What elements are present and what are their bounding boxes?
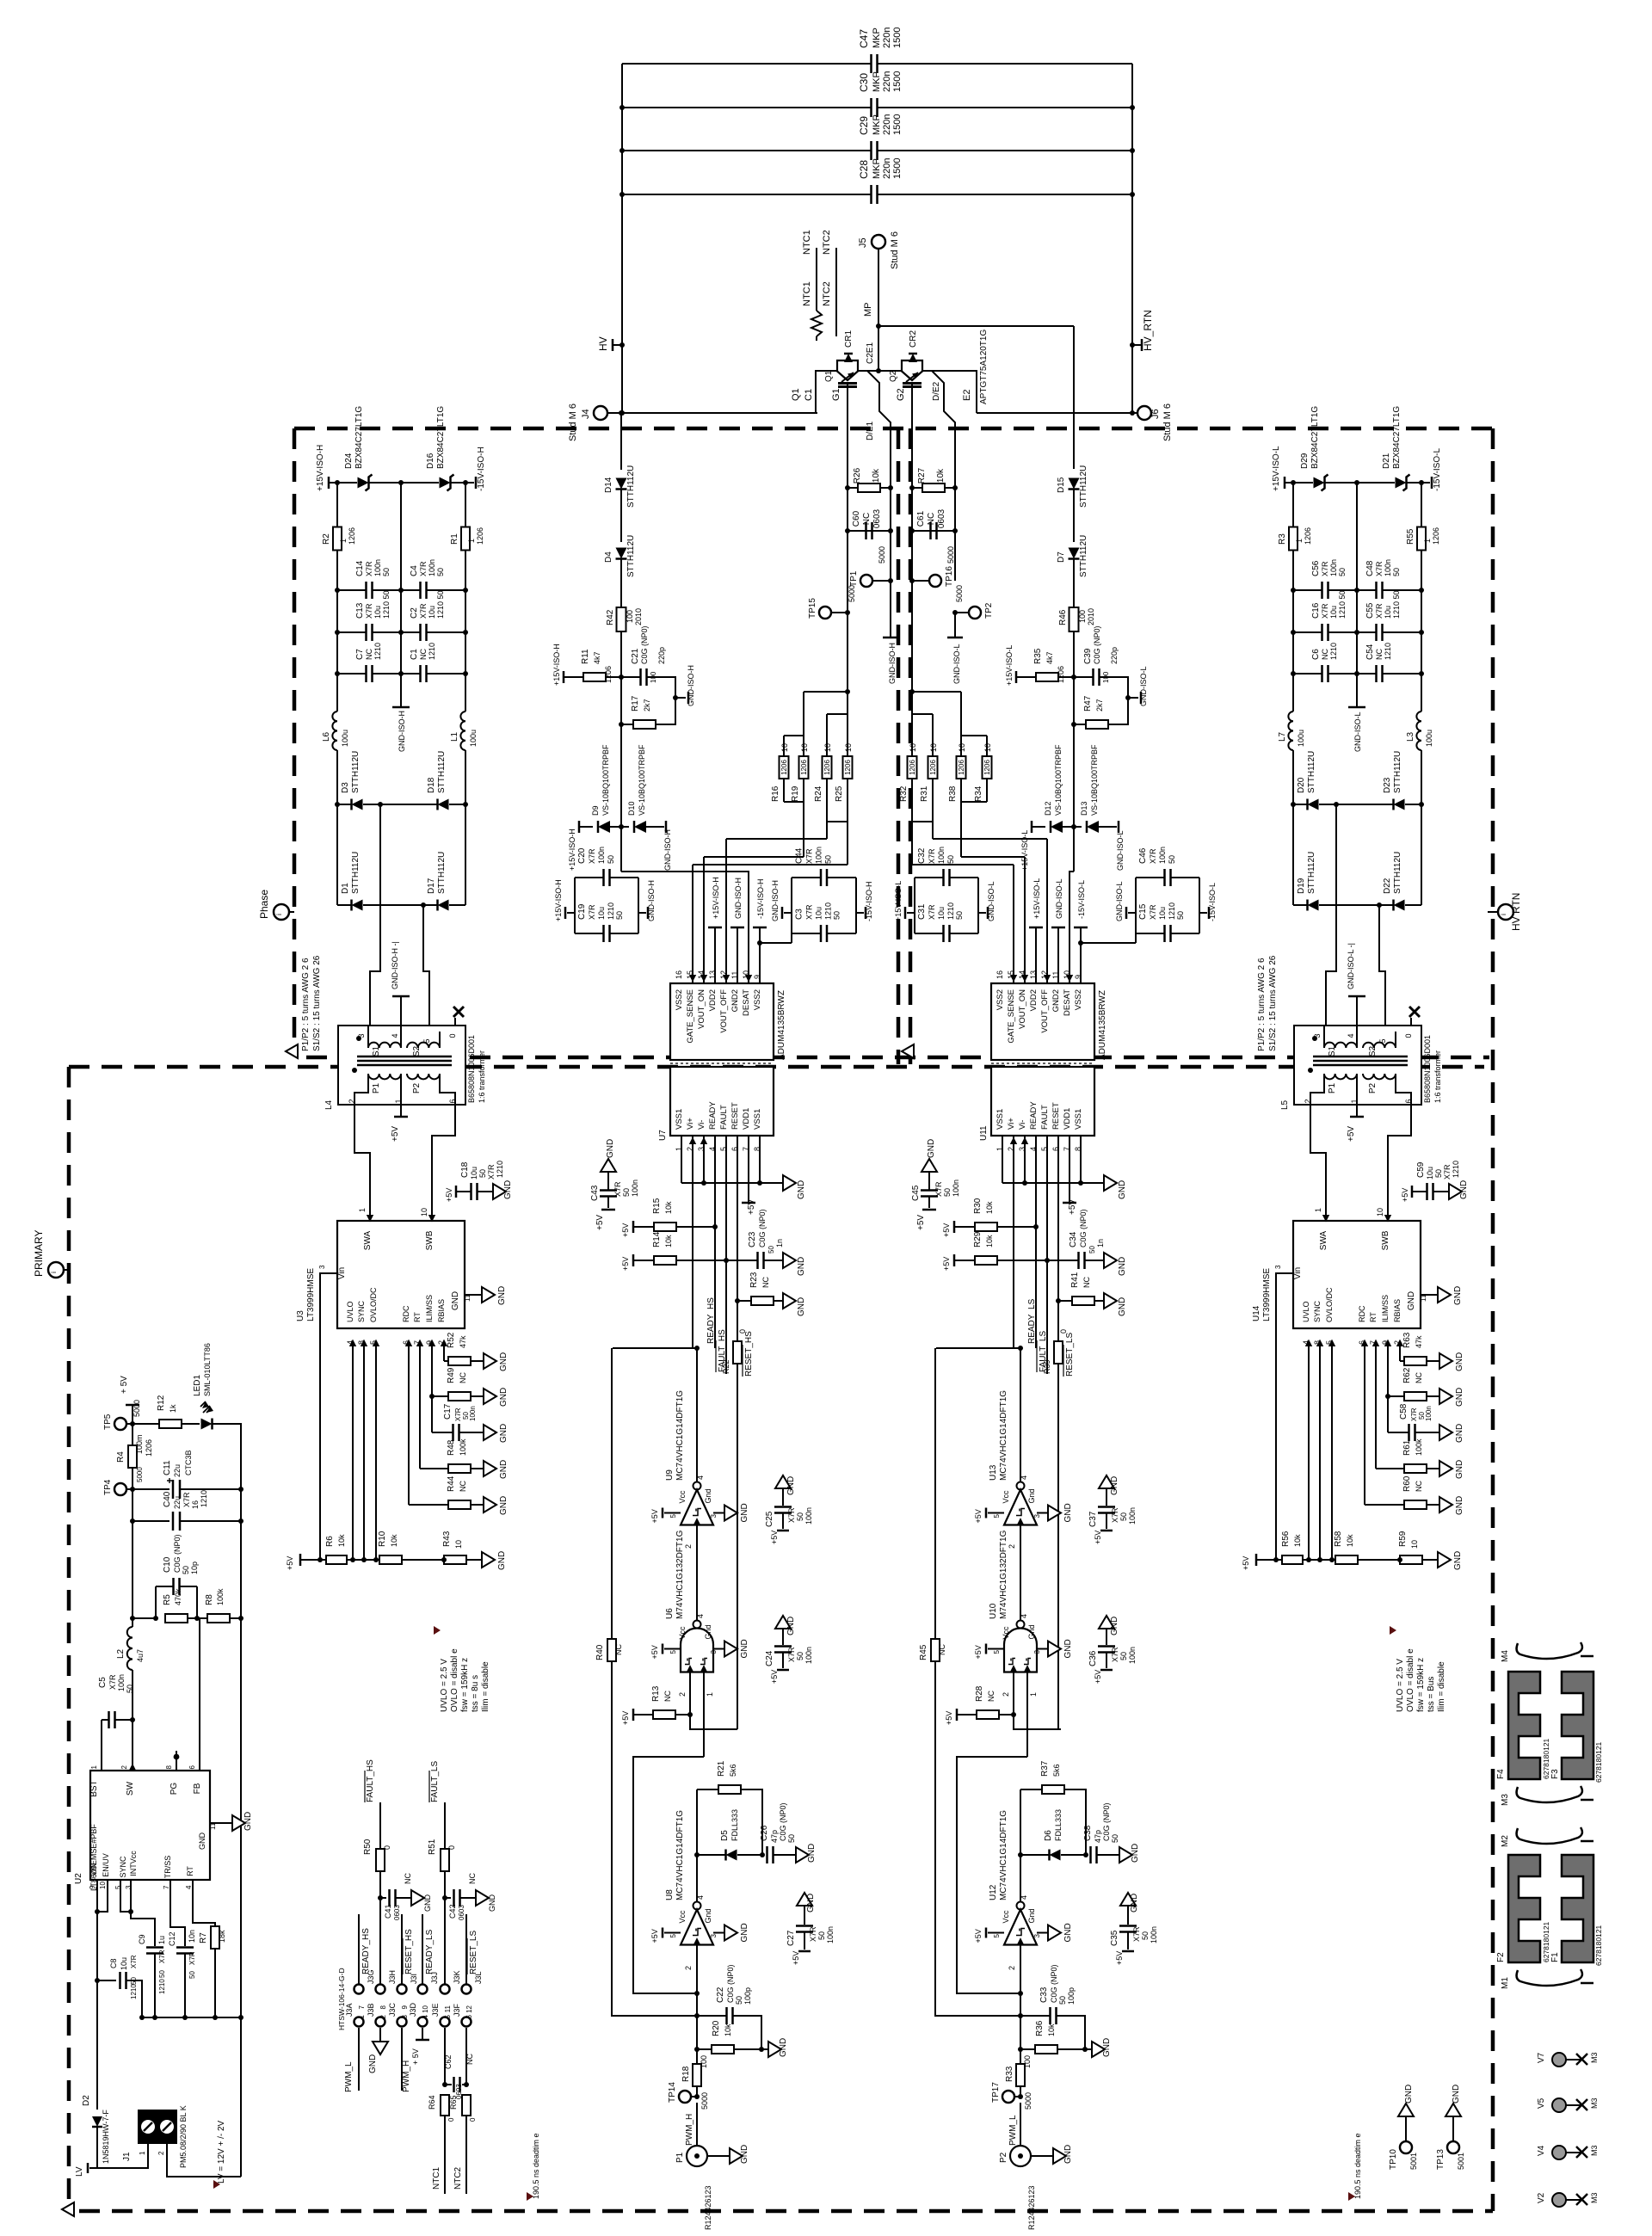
diode D2 (1N5819) [92, 2116, 102, 2127]
svg-text:C46: C46 [1138, 847, 1148, 864]
svg-text:C55: C55 [1365, 602, 1375, 619]
thermistor NTC1 NTC2 [816, 248, 817, 311]
resistor R31 [928, 756, 938, 779]
svg-text:100k: 100k [459, 1438, 467, 1456]
svg-text:NC: NC [1415, 1372, 1423, 1383]
testpoint TP14 [679, 2091, 691, 2103]
wire FB net down [240, 1521, 242, 1618]
svg-text:C26: C26 [760, 1825, 769, 1841]
note deadtime high [527, 2192, 533, 2201]
connector pin J3E [441, 2017, 450, 2027]
svg-text:1: 1 [90, 1765, 98, 1769]
wire secondary to diodes [1326, 804, 1336, 1026]
wire Q2 emitter E2 [922, 371, 977, 413]
resistor R52 [444, 1360, 448, 1362]
svg-text:10: 10 [800, 743, 809, 752]
svg-text:FAULT: FAULT [1040, 1105, 1050, 1130]
svg-text:C9: C9 [138, 1934, 146, 1944]
wire gate cluster pair rails [847, 613, 848, 714]
svg-text:1k: 1k [169, 1404, 177, 1413]
svg-text:R63: R63 [1402, 1332, 1412, 1348]
resistor R11 [583, 673, 606, 681]
capacitor C59 [1411, 1186, 1414, 1198]
svg-text:1210 50: 1210 50 [1392, 590, 1401, 619]
svg-text:MC74VHC1G14DFT1G: MC74VHC1G14DFT1G [999, 1810, 1008, 1900]
svg-text:C32: C32 [917, 847, 927, 864]
svg-text:GND-ISO-H: GND-ISO-H [734, 878, 743, 919]
svg-text:10u: 10u [1329, 606, 1338, 619]
svg-text:50: 50 [188, 1971, 196, 1979]
capacitor C40 (22u) [130, 1518, 135, 1524]
svg-text:+15V-ISO-H: +15V-ISO-H [316, 445, 325, 491]
svg-text:50: 50 [622, 1188, 631, 1197]
resistor R30 [953, 1221, 956, 1233]
svg-text:10k: 10k [985, 1235, 994, 1247]
resistor R13 [632, 1709, 635, 1721]
svg-text:C0G (NP0): C0G (NP0) [1050, 1964, 1058, 2003]
svg-text:+15V-ISO-L: +15V-ISO-L [894, 881, 903, 921]
svg-text:R51: R51 [428, 1839, 437, 1855]
svg-text:R36: R36 [1035, 2020, 1045, 2036]
svg-text:D29: D29 [1300, 453, 1310, 469]
svg-text:NC: NC [465, 2054, 474, 2065]
resistor R44 [409, 1504, 448, 1506]
svg-text:Q1: Q1 [824, 370, 834, 382]
svg-text:4u7: 4u7 [136, 1649, 145, 1662]
svg-text:NTC2: NTC2 [822, 230, 832, 255]
svg-text:50: 50 [735, 1996, 743, 2005]
svg-text:R24: R24 [814, 785, 823, 802]
capacitor C11 (22u pol) [133, 1488, 170, 1490]
note deadtime low [1348, 2192, 1355, 2201]
svg-text:DESAT: DESAT [1063, 989, 1072, 1016]
note LV = 12V [213, 2180, 220, 2189]
svg-text:+ 5V: + 5V [120, 1376, 129, 1394]
svg-text:+5V: +5V [942, 1223, 951, 1237]
svg-text:EN/UV: EN/UV [102, 1853, 110, 1877]
svg-text:220n: 220n [882, 158, 892, 179]
svg-text:P1/P2 : 5 turns AWG 2 6: P1/P2 : 5 turns AWG 2 6 [1257, 958, 1267, 1051]
wire GND rail bottom [142, 2017, 241, 2018]
svg-text:L7: L7 [1278, 731, 1287, 742]
svg-text:GND: GND [1452, 2085, 1461, 2104]
svg-text:4: 4 [1020, 1614, 1028, 1618]
wire SWB pin [1387, 1211, 1389, 1221]
svg-text:X7R: X7R [108, 1674, 117, 1690]
wire J1 pin2 [167, 2144, 241, 2177]
right boundary edge [1491, 428, 1495, 2211]
svg-text:U6: U6 [665, 1608, 675, 1619]
svg-text:VOUT_OFF: VOUT_OFF [1040, 989, 1050, 1033]
wire inverter U9 output to ADuM Vi+ [696, 1348, 698, 1482]
svg-text:X7R: X7R [365, 603, 373, 619]
svg-text:10u: 10u [1158, 907, 1167, 920]
svg-text:U11: U11 [979, 1125, 989, 1141]
svg-text:1: 1 [1423, 539, 1432, 543]
svg-text:STTH112U: STTH112U [626, 465, 636, 508]
zener diode D16 [401, 482, 439, 484]
inductor L1 [465, 674, 466, 711]
svg-text:GND: GND [740, 1639, 749, 1658]
svg-text:5000: 5000 [700, 2092, 709, 2110]
wire DESAT route low [1069, 872, 1074, 983]
svg-text:GND-ISO-L: GND-ISO-L [1055, 878, 1063, 919]
wire U10 inputs [1013, 1672, 1014, 1715]
wire Vi- arrow [700, 1137, 707, 1144]
svg-text:100n: 100n [1128, 1507, 1137, 1525]
svg-text:D16: D16 [426, 453, 435, 469]
svg-text:X7R: X7R [787, 1507, 796, 1523]
svg-text:10k: 10k [664, 1201, 673, 1214]
svg-text:VSS2: VSS2 [753, 989, 762, 1010]
svg-text:HV: HV [597, 336, 609, 351]
svg-text:X7R: X7R [182, 1492, 191, 1507]
svg-text:C39: C39 [1083, 648, 1093, 664]
svg-text:GND: GND [1131, 1844, 1140, 1863]
wire capblock sides [791, 878, 792, 933]
svg-text:10k: 10k [872, 468, 881, 483]
svg-text:50: 50 [796, 1652, 804, 1660]
wire VOUT_OFF [1046, 839, 1048, 983]
svg-text:6: 6 [448, 1099, 457, 1103]
connector pin J3F [462, 2017, 472, 2027]
svg-text:GND2: GND2 [730, 989, 740, 1012]
wire VOUT_OFF [725, 839, 727, 983]
svg-text:+5V: +5V [1401, 1188, 1409, 1202]
svg-text:C13: C13 [355, 602, 365, 619]
svg-text:STTH112U: STTH112U [1393, 751, 1402, 793]
op-amp U7 (ADuM4135 gate driver) upper half [670, 983, 774, 1060]
power +5V (Vcc U8) [664, 1932, 681, 1934]
ground GND-ISO-L (GND2) [1057, 927, 1059, 983]
svg-text:PWM_H: PWM_H [685, 2114, 694, 2146]
svg-text:X7R: X7R [419, 603, 428, 619]
svg-text:10: 10 [844, 743, 853, 752]
svg-text:9: 9 [89, 1885, 96, 1889]
wire cluster links high [804, 691, 848, 693]
diode D14 [620, 413, 622, 470]
svg-text:3: 3 [1274, 1265, 1282, 1269]
svg-text:100: 100 [1023, 2055, 1032, 2068]
svg-text:GND-ISO-L: GND-ISO-L [1115, 881, 1124, 921]
svg-text:50: 50 [182, 1566, 190, 1574]
capacitor C6 [1293, 673, 1322, 674]
svg-text:D21: D21 [1382, 453, 1391, 469]
svg-text:R23: R23 [749, 1272, 759, 1288]
svg-text:MC74VHC1G14DFT1G: MC74VHC1G14DFT1G [999, 1390, 1008, 1481]
capacitor C23 [726, 1260, 757, 1261]
svg-text:1206: 1206 [780, 760, 788, 775]
diode D18 [380, 804, 437, 805]
wire SWA pin [1325, 1211, 1327, 1221]
svg-text:50: 50 [767, 1246, 775, 1254]
svg-text:R6: R6 [325, 1536, 335, 1547]
net label HV_RTN [1141, 339, 1143, 351]
svg-text:R14: R14 [652, 1231, 662, 1247]
svg-text:NTC2: NTC2 [453, 2166, 463, 2190]
svg-text:FAULT_HS: FAULT_HS [366, 1759, 375, 1802]
svg-text:RT: RT [1369, 1312, 1378, 1322]
svg-text:0: 0 [447, 2117, 455, 2122]
svg-text:100p: 100p [1067, 1987, 1076, 2005]
svg-text:11: 11 [444, 2005, 452, 2012]
svg-text:C8: C8 [109, 1958, 118, 1968]
svg-text:C61: C61 [916, 510, 926, 527]
svg-text:1206: 1206 [1304, 527, 1312, 545]
wire UVLO riser [1308, 1342, 1310, 1560]
svg-text:R5: R5 [163, 1594, 172, 1605]
svg-text:100u: 100u [341, 730, 349, 747]
svg-text:R7: R7 [199, 1932, 208, 1943]
svg-text:GND: GND [488, 1894, 496, 1913]
net READY_HS stub [358, 1914, 360, 1984]
svg-text:OVLO/DC: OVLO/DC [1325, 1287, 1334, 1322]
svg-text:CR2: CR2 [909, 330, 918, 348]
svg-text:4: 4 [185, 1885, 193, 1889]
svg-text:1:6 transformer: 1:6 transformer [478, 1050, 486, 1103]
capacitor C24 decoupling [775, 1616, 791, 1629]
svg-text:NTC1: NTC1 [802, 230, 812, 255]
no-connect pin 0 [454, 1018, 456, 1026]
svg-text:RDC: RDC [1358, 1305, 1366, 1322]
svg-text:LT3999HMSE: LT3999HMSE [1262, 1268, 1272, 1321]
capacitor C33 [1049, 2007, 1051, 2024]
svg-text:10: 10 [823, 743, 832, 752]
svg-text:47k: 47k [459, 1335, 467, 1348]
svg-text:1: 1 [467, 539, 476, 543]
svg-text:SYNC: SYNC [1313, 1300, 1322, 1322]
svg-text:F4: F4 [1496, 1769, 1506, 1779]
jumper M2 [1517, 1827, 1582, 1844]
svg-text:D18: D18 [427, 777, 436, 793]
svg-text:+15V-ISO-H: +15V-ISO-H [568, 828, 576, 871]
diode D3 [337, 804, 351, 805]
wire G2 lead [911, 388, 913, 488]
svg-text:100n: 100n [952, 1180, 960, 1197]
testpoint TP17 [1002, 2091, 1014, 2103]
svg-text:C0G (NP0): C0G (NP0) [1093, 625, 1101, 664]
capacitor C3 [792, 933, 821, 934]
svg-text:VDD1: VDD1 [742, 1108, 751, 1130]
svg-text:GND: GND [497, 1551, 507, 1570]
power +5V (Vcc U10) [988, 1648, 1004, 1650]
svg-text:10k: 10k [390, 1534, 398, 1547]
ground GND (U14 pin11) [1421, 1294, 1438, 1296]
svg-text:10u: 10u [1426, 1167, 1434, 1180]
svg-text:+15V-ISO-H: +15V-ISO-H [552, 644, 561, 686]
svg-text:190.5 ns deadtim e: 190.5 ns deadtim e [1353, 2133, 1362, 2199]
svg-text:NC: NC [938, 1644, 946, 1655]
svg-text:100: 100 [1078, 610, 1087, 623]
ground GND-ISO-H [890, 581, 891, 638]
resistor R21 [718, 1785, 741, 1794]
jumper M3 [1517, 1786, 1582, 1802]
svg-text:5001: 5001 [1409, 2153, 1418, 2170]
svg-text:C15: C15 [1138, 903, 1148, 920]
svg-text:1206: 1206 [823, 760, 831, 775]
svg-text:2: 2 [684, 1966, 693, 1970]
svg-text:GND: GND [1407, 1291, 1416, 1310]
svg-text:GND: GND [797, 1180, 806, 1199]
wire +5V rail down to L2 [132, 1521, 133, 1618]
svg-text:100p: 100p [743, 1987, 752, 2005]
svg-text:D6: D6 [1044, 1830, 1053, 1841]
power +5V (Vcc U6) [664, 1648, 681, 1650]
svg-text:PRIMARY: PRIMARY [33, 1230, 45, 1277]
svg-text:+ 5V: + 5V [411, 2048, 420, 2065]
svg-text:GND2: GND2 [1051, 989, 1061, 1012]
svg-text:100: 100 [700, 2055, 708, 2068]
svg-text:TR/SS: TR/SS [163, 1856, 172, 1879]
svg-text:RESET_HS: RESET_HS [404, 1929, 414, 1974]
resistor R6 [326, 1555, 347, 1564]
wire VSS1/GND rail [1002, 1136, 1003, 1183]
power GND-ISO-H [638, 912, 646, 914]
svg-text:50: 50 [1338, 568, 1347, 576]
svg-text:10k: 10k [936, 468, 946, 483]
svg-text:C59: C59 [1416, 1161, 1426, 1178]
svg-text:1210 50: 1210 50 [436, 590, 445, 619]
svg-text:U8: U8 [665, 1889, 675, 1900]
svg-text:S1: S1 [372, 1045, 381, 1056]
svg-text:Vcc: Vcc [1002, 1910, 1010, 1924]
svg-text:5: 5 [993, 1650, 1001, 1654]
transistor Q2 (IGBT) [902, 360, 922, 380]
svg-text:FDLL333: FDLL333 [730, 1809, 739, 1841]
svg-text:GND: GND [503, 1180, 513, 1199]
svg-text:100m: 100m [135, 1434, 144, 1454]
svg-text:5000: 5000 [955, 585, 964, 602]
svg-text:GND: GND [451, 1291, 460, 1310]
svg-text:APTGT75A120T1G: APTGT75A120T1G [979, 330, 989, 404]
svg-text:X7R: X7R [1375, 603, 1384, 619]
power +15V-ISO-H [328, 477, 330, 489]
ground GND (U2 pin11) [210, 1822, 232, 1824]
svg-text:VOUT_ON: VOUT_ON [697, 989, 706, 1029]
svg-text:-15V-ISO-H: -15V-ISO-H [477, 447, 486, 491]
svg-text:5: 5 [669, 1650, 677, 1654]
net PWM_H stub [401, 2028, 403, 2091]
svg-text:R3: R3 [1278, 533, 1287, 545]
svg-text:6278180121: 6278180121 [1542, 1921, 1550, 1962]
svg-text:R18: R18 [681, 2066, 691, 2082]
connector pin J3A [354, 2017, 364, 2027]
svg-text:P2: P2 [1368, 1082, 1378, 1093]
svg-text:10u: 10u [1384, 606, 1392, 619]
wire Vi+ [1013, 1136, 1014, 1347]
svg-text:D5: D5 [720, 1830, 730, 1841]
resistor R46 [1069, 607, 1079, 631]
svg-text:8: 8 [165, 1765, 173, 1769]
svg-text:GND: GND [797, 1257, 806, 1276]
connector J1 (terminal block) [138, 2110, 177, 2144]
svg-text:M74VHC1G132DFT1G: M74VHC1G132DFT1G [675, 1530, 685, 1619]
svg-text:P1: P1 [1328, 1082, 1337, 1093]
svg-text:SYNC: SYNC [357, 1300, 366, 1322]
svg-text:1: 1 [1295, 539, 1304, 543]
power +15V-ISO-H [563, 671, 565, 683]
svg-text:J3E: J3E [431, 2003, 440, 2017]
power -15V-ISO-L [1199, 912, 1207, 914]
svg-text:1500: 1500 [892, 158, 903, 179]
svg-text:1206: 1206 [348, 527, 356, 545]
svg-text:NC: NC [862, 513, 872, 525]
svg-text:R49: R49 [447, 1367, 456, 1383]
svg-text:1: 1 [394, 1099, 403, 1103]
wire SWB pin [431, 1211, 433, 1221]
svg-text:47p: 47p [770, 1830, 779, 1843]
resistor R45 [934, 1348, 936, 1639]
svg-text:STTH112U: STTH112U [351, 852, 361, 894]
svg-text:VSS1: VSS1 [1074, 1109, 1083, 1130]
wire SYNC/INTVcc to C9 [120, 1880, 131, 1912]
wire desat to ADuM DESAT pin [1073, 827, 1075, 872]
svg-text:12: 12 [465, 2005, 473, 2012]
svg-text:10k: 10k [664, 1235, 673, 1247]
power +5V (center tap) [1356, 1105, 1358, 1117]
diode D19 [1293, 904, 1307, 906]
svg-text:1206: 1206 [958, 760, 965, 775]
svg-text:4: 4 [1347, 1033, 1355, 1038]
svg-text:10: 10 [422, 2005, 429, 2012]
svg-text:NC: NC [459, 1372, 467, 1383]
connector pin J3G [354, 1985, 364, 1994]
ground GND (U3 pin11) [465, 1294, 482, 1296]
svg-text:11: 11 [209, 1822, 217, 1830]
testpoint TP15 [819, 607, 831, 619]
svg-text:+5V: +5V [792, 1951, 800, 1965]
svg-text:PWM_H: PWM_H [402, 2060, 411, 2092]
net READY_LS stub [422, 1914, 423, 1984]
svg-text:GND: GND [1453, 1286, 1463, 1305]
testpoint TP5 [114, 1418, 126, 1430]
resistor R7 [211, 1926, 219, 1949]
ground GND-ISO-L (transformer pin4) [1356, 996, 1358, 1026]
svg-text:GND: GND [1118, 1257, 1127, 1276]
svg-text:Phase: Phase [258, 890, 270, 919]
svg-text:1210 50: 1210 50 [1338, 590, 1347, 619]
svg-text:+5V: +5V [1094, 1670, 1102, 1684]
inductor L7 [1292, 674, 1294, 711]
wire SYNC riser [1319, 1342, 1321, 1560]
svg-text:1n: 1n [1096, 1239, 1105, 1247]
svg-text:F3: F3 [1550, 1769, 1560, 1779]
svg-text:R21: R21 [717, 1760, 726, 1777]
svg-text:10p: 10p [190, 1562, 199, 1574]
ISO-L corner arrow [902, 1044, 914, 1058]
connector P1 (BNC) [696, 2103, 698, 2146]
connector pin J3I [398, 1985, 407, 1994]
svg-text:GND: GND [423, 1894, 432, 1913]
svg-text:UVLO = 2.5 V: UVLO = 2.5 V [1396, 1659, 1405, 1712]
svg-text:BZX84C27LT1G: BZX84C27LT1G [354, 406, 364, 469]
svg-text:tss = 8u s: tss = 8u s [471, 1675, 480, 1712]
svg-text:C18: C18 [460, 1161, 470, 1178]
svg-text:C16: C16 [1311, 602, 1321, 619]
svg-text:-15V-ISO-H: -15V-ISO-H [756, 878, 765, 919]
capacitor C45 [928, 1172, 930, 1190]
resistor R61 [1376, 1468, 1404, 1469]
diode D7 [1069, 548, 1080, 559]
wire U2 pins top [101, 1720, 102, 1771]
svg-text:C2: C2 [410, 607, 419, 619]
svg-text:GND-ISO-H: GND-ISO-H [663, 829, 672, 871]
diode D4 [616, 548, 627, 559]
svg-text:0: 0 [383, 1845, 391, 1850]
resistor R59 [1400, 1555, 1422, 1564]
svg-text:P1: P1 [675, 2152, 685, 2163]
svg-text:1206: 1206 [476, 527, 484, 545]
